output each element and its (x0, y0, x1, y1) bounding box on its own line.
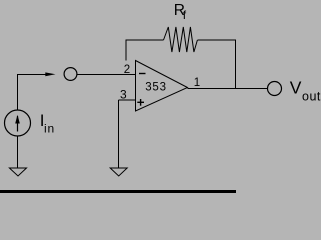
plus sign (137, 101, 144, 103)
svg-text:2: 2 (124, 64, 130, 76)
op-amp U1 triangle (136, 61, 188, 112)
current source I1 circle (5, 110, 31, 136)
svg-text:353: 353 (145, 82, 167, 94)
wire current source to ground (17, 136, 19, 168)
wire input horizontal (17, 74, 50, 76)
svg-text:3: 3 (120, 87, 127, 101)
wire pin3 horizontal (119, 99, 136, 101)
svg-text:V: V (290, 78, 302, 98)
output terminal circle (268, 82, 282, 96)
svg-text:in: in (44, 121, 55, 135)
wire input vertical (17, 74, 19, 110)
current source arrow (17, 116, 19, 132)
wire feedback top left (126, 39, 164, 41)
ground under pin3 (110, 168, 127, 176)
minus sign (139, 73, 146, 75)
wire to inverting input (77, 74, 136, 76)
svg-text:out: out (302, 90, 321, 104)
input arrowhead (45, 72, 55, 76)
resistor R1 zigzag (164, 27, 198, 52)
wire feedback vertical left (125, 40, 127, 61)
wire feedback vertical right (235, 40, 237, 89)
wire pin3 vertical to ground (118, 100, 120, 168)
wire feedback top right (197, 39, 236, 41)
bottom rule (0, 190, 236, 193)
ground under current source (9, 168, 26, 176)
svg-text:1: 1 (194, 77, 200, 89)
wire output (188, 87, 268, 89)
input terminal circle (64, 68, 77, 81)
